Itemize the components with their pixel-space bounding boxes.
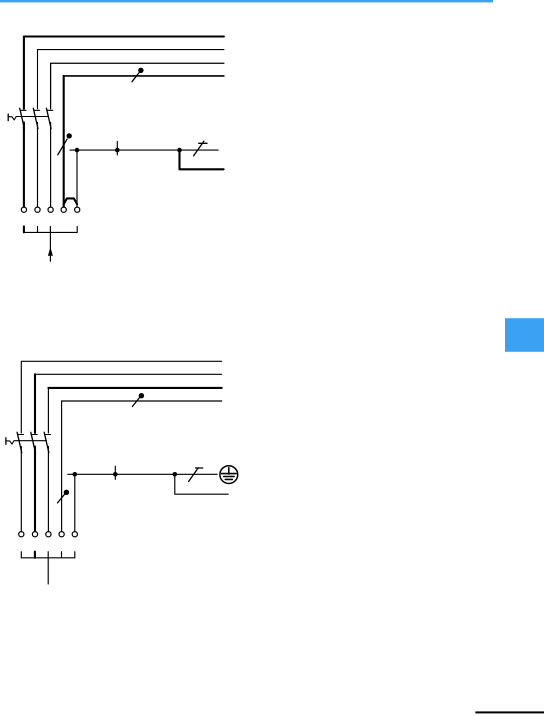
wire L3 bbox=[51, 63, 224, 207]
terminal X1.4 bbox=[61, 207, 66, 212]
breaker Q1 pole 2 bbox=[33, 108, 39, 128]
wire from node N1 down to terminal 5 bbox=[76, 150, 78, 207]
breaker Q2 pole 2 bbox=[31, 432, 37, 453]
wire N branch (horizontal) bbox=[70, 149, 218, 151]
breaker Q1 pole 1 (tick + blade) bbox=[20, 108, 26, 128]
connector symbol K1 on wire L4 horizontal (slash with dot) bbox=[132, 68, 144, 82]
connector symbol K3 on wire LD horizontal (slash with dot) bbox=[132, 393, 144, 407]
connector symbol K2 at branch of wire L4 (slash with dot) bbox=[58, 133, 72, 155]
terminal X2.1 bbox=[19, 532, 24, 537]
node N3 bbox=[177, 148, 182, 153]
wire from node M1 down to terminal 5 bbox=[74, 474, 76, 531]
node M3 bbox=[173, 472, 178, 477]
breaker Q1 pole 3 bbox=[46, 108, 52, 128]
breaker Q2 pole 3 bbox=[44, 432, 50, 453]
switch S1 on branch (slash with top tick) bbox=[194, 141, 207, 156]
terminal X2.2 bbox=[32, 532, 37, 537]
wire L4 (thick L-shape) bbox=[64, 76, 224, 207]
wire thick drop from node N3 bbox=[180, 150, 224, 169]
wire L2 bbox=[38, 50, 224, 208]
node M2 with tap tick bbox=[113, 466, 118, 479]
wire LA bbox=[21, 361, 221, 531]
wire L1 (thick L-shape, phase 1) bbox=[24, 37, 224, 208]
terminal X1.2 bbox=[35, 207, 40, 212]
node M1 bbox=[73, 472, 78, 477]
breaker Q1 mechanical linkage with actuator bbox=[8, 114, 48, 121]
terminal X2.5 bbox=[72, 532, 77, 537]
node N1 bbox=[75, 148, 80, 153]
cable bracket with supply arrow bbox=[24, 226, 77, 261]
protective earth symbol PE bbox=[220, 466, 238, 484]
wire LC (thick horizontal, thin vertical) bbox=[48, 388, 221, 532]
breaker Q2 mechanical linkage with actuator bbox=[6, 438, 47, 445]
terminal X1.5 bbox=[75, 207, 80, 212]
wire LD bbox=[62, 400, 222, 402]
switch S2 on branch (slash with top tick) bbox=[189, 468, 203, 482]
wire LB (thin horizontal, thick vertical) bbox=[35, 374, 222, 531]
terminal X1.1 bbox=[21, 207, 26, 212]
connector symbol K4 on wire LD vertical (slash with dot) bbox=[58, 490, 70, 503]
terminal X2.3 bbox=[46, 532, 51, 537]
node N2 with tap tick bbox=[115, 142, 120, 156]
wire N2 branch (horizontal) bbox=[68, 473, 217, 475]
cable bracket with stem bbox=[21, 552, 75, 584]
wire thin drop from node M3 bbox=[175, 474, 228, 494]
bridge jumper between terminal 4 and terminal 5 bbox=[64, 198, 77, 204]
terminal X2.4 bbox=[59, 532, 64, 537]
terminal X1.3 bbox=[48, 207, 53, 212]
breaker Q2 pole 1 bbox=[17, 432, 23, 453]
